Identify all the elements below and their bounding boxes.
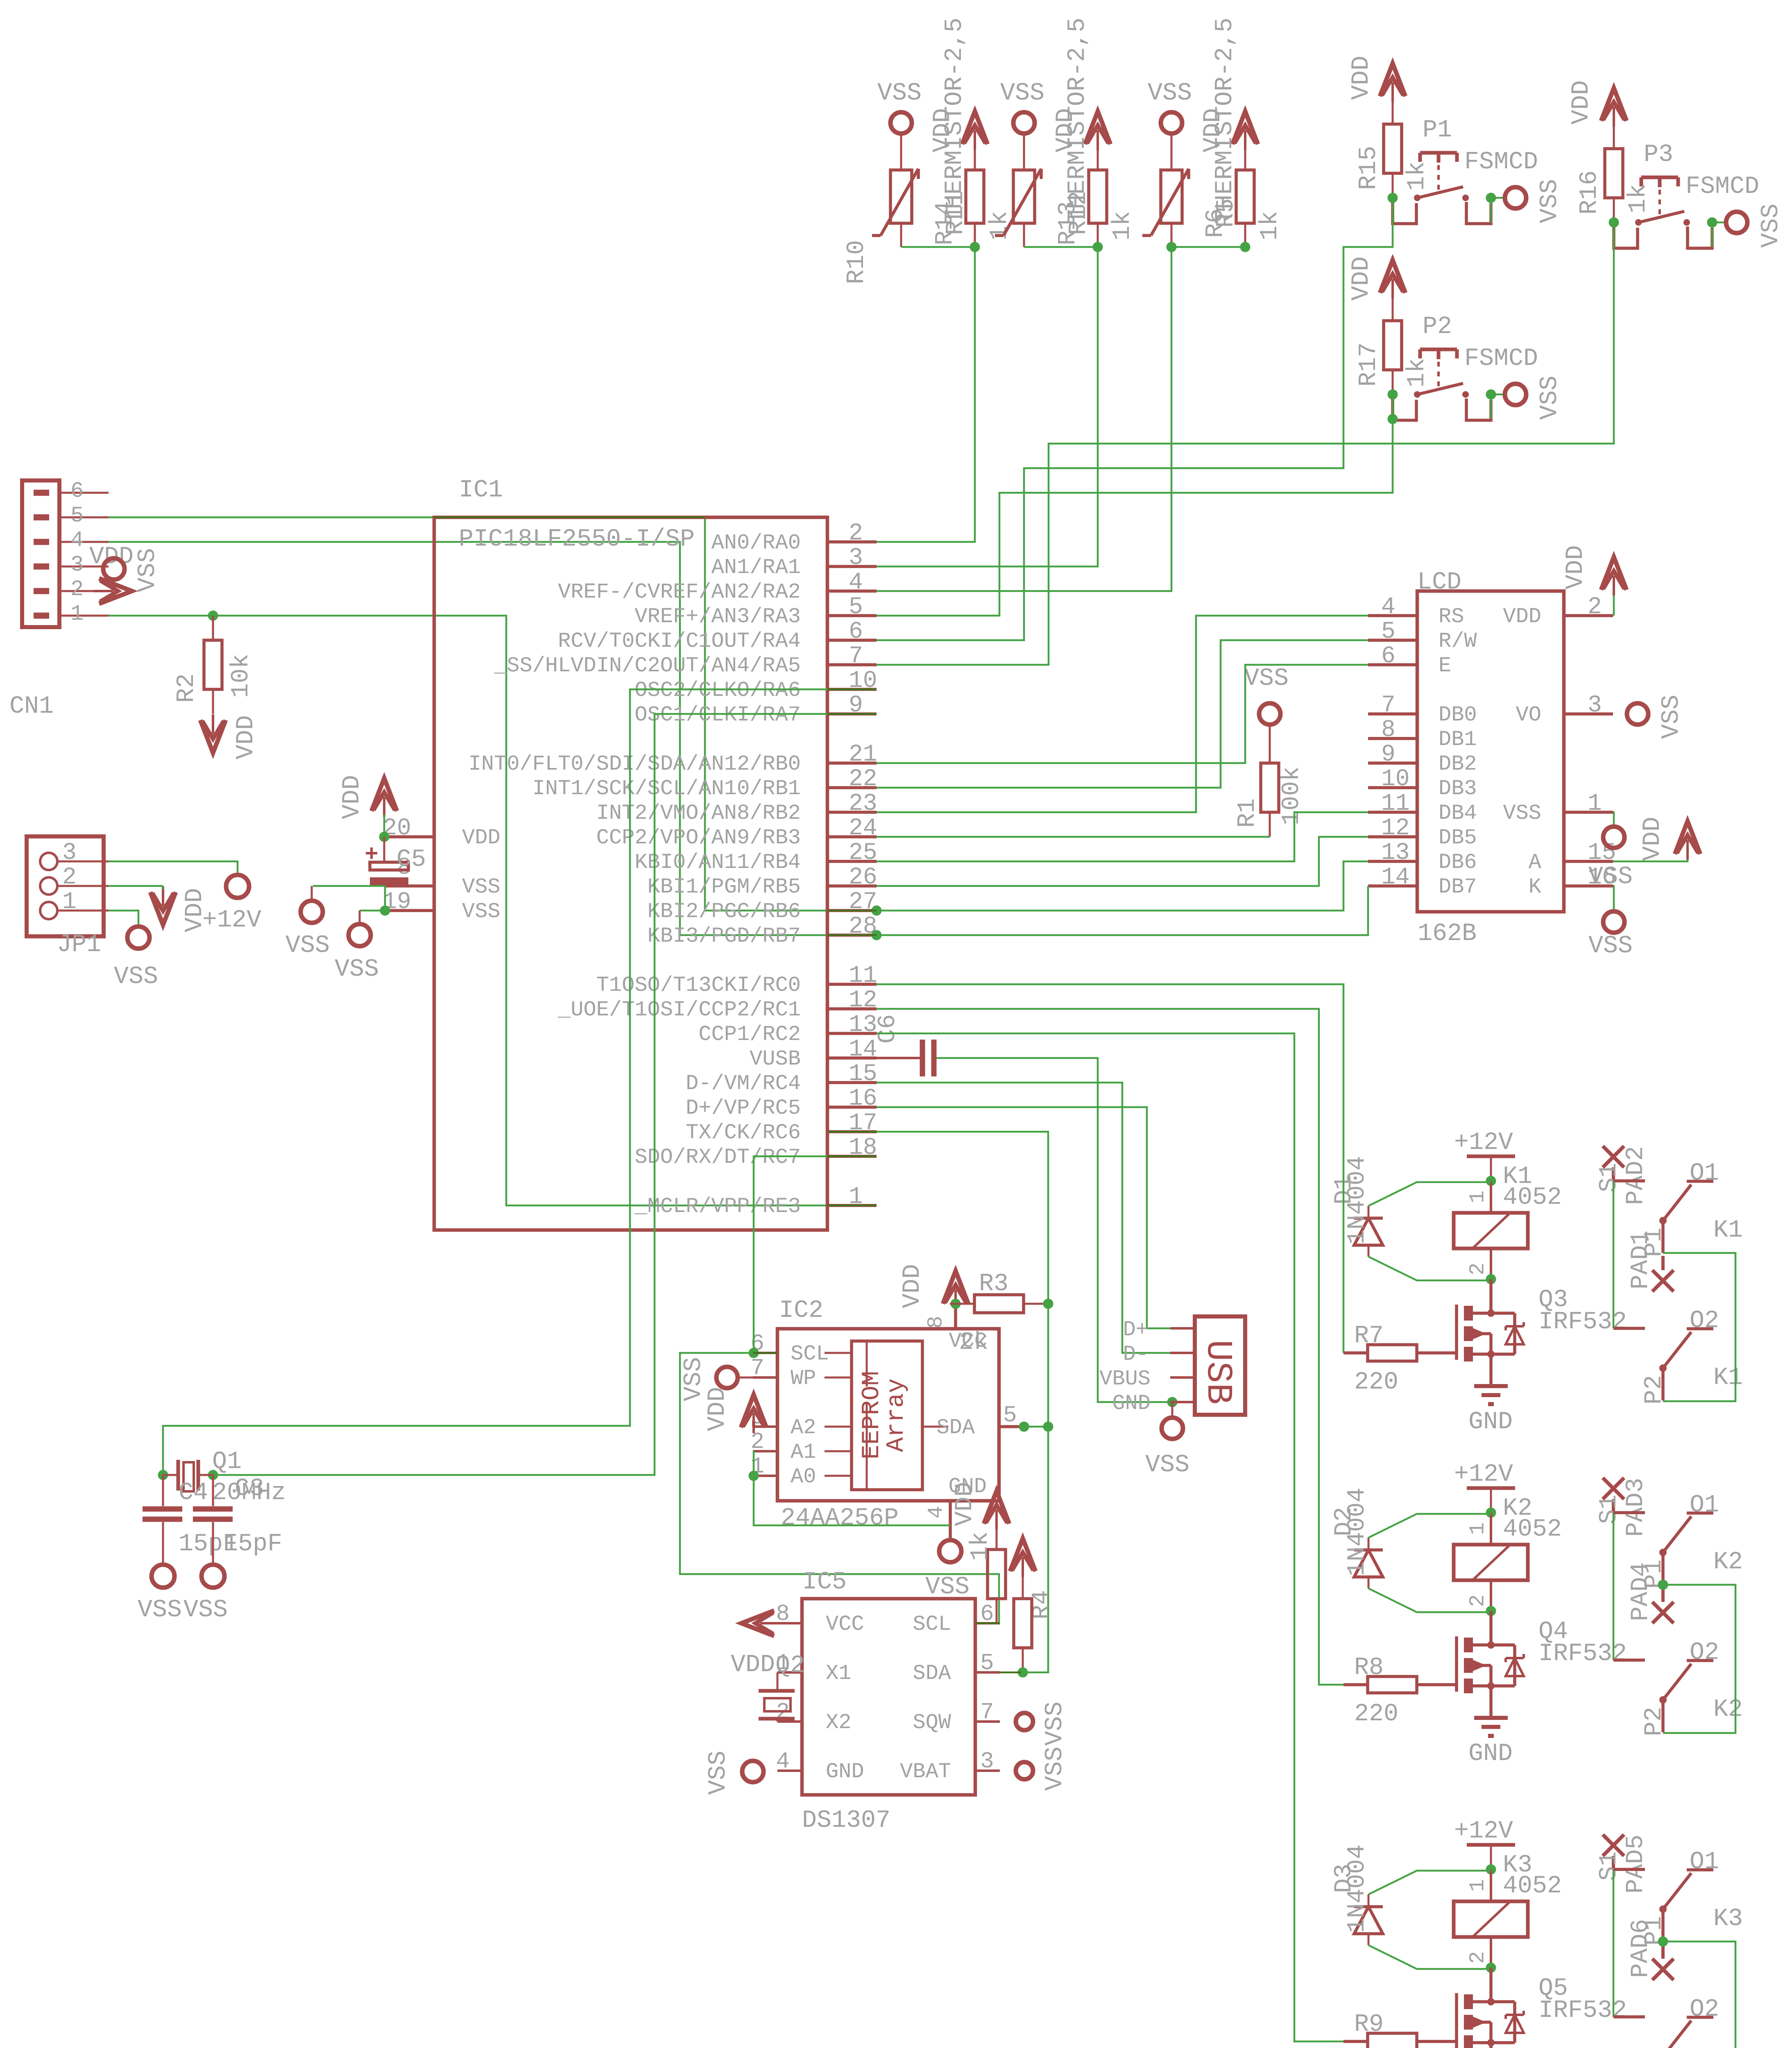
svg-text:PAD1: PAD1 xyxy=(1627,1230,1655,1289)
svg-text:K2: K2 xyxy=(1713,1696,1743,1724)
transistor Q3 IRF532 xyxy=(1457,1279,1627,1362)
junction node K2 pole1 xyxy=(1658,1580,1668,1590)
svg-text:220: 220 xyxy=(1354,1700,1398,1728)
junction node group2 xyxy=(1093,242,1103,252)
wire P1 net to IC1 pin6 xyxy=(877,198,1393,640)
svg-text:15: 15 xyxy=(1588,840,1616,866)
power VSS ring below IC2 GND xyxy=(925,1540,970,1601)
junction node Q5 drain xyxy=(1487,1998,1495,2005)
svg-text:3: 3 xyxy=(1588,692,1602,719)
IC1 pin 28 KBI3/PGD/RB7 xyxy=(648,913,877,948)
svg-text:_UOE/T1OSI/CCP2/RC1: _UOE/T1OSI/CCP2/RC1 xyxy=(557,998,801,1022)
IC5 pin 8 VCC xyxy=(776,1601,864,1636)
svg-text:1: 1 xyxy=(1466,1522,1490,1535)
svg-text:VSS: VSS xyxy=(1000,79,1044,107)
svg-text:VDD: VDD xyxy=(899,1264,927,1308)
IC1 pin 26 KBI1/PGM/RB5 xyxy=(648,864,877,899)
pad PAD1 xyxy=(1627,1230,1674,1291)
svg-text:26: 26 xyxy=(849,864,877,891)
svg-text:GND: GND xyxy=(1468,1740,1513,1768)
svg-text:P2: P2 xyxy=(1423,313,1452,341)
resistor R1 100k xyxy=(1234,725,1306,837)
wire IC1 pin25 to LCD DB4 xyxy=(877,812,1368,861)
svg-text:Array: Array xyxy=(883,1378,911,1452)
svg-text:S1: S1 xyxy=(1595,1851,1623,1881)
IC1 pin 27 KBI2/PGC/RB6 xyxy=(648,889,877,924)
IC1 pin 11 T1OSO/T13CKI/RC0 xyxy=(596,963,877,997)
svg-text:1: 1 xyxy=(1588,791,1602,817)
IC5 pin 1 X1 xyxy=(776,1650,851,1686)
svg-text:C5: C5 xyxy=(396,846,426,874)
svg-text:PAD2: PAD2 xyxy=(1622,1146,1650,1205)
junction node IC1 pin28 xyxy=(872,930,882,940)
svg-text:2: 2 xyxy=(1466,1951,1490,1964)
transistor Q5 IRF532 xyxy=(1457,1968,1627,2048)
resistor R8 220 xyxy=(1343,1654,1457,1728)
svg-text:_SS/HLVDIN/C2OUT/AN4/RA5: _SS/HLVDIN/C2OUT/AN4/RA5 xyxy=(494,654,801,678)
svg-text:GND: GND xyxy=(1112,1391,1151,1416)
svg-text:4: 4 xyxy=(776,1748,790,1774)
svg-text:DS1307: DS1307 xyxy=(802,1807,890,1835)
svg-text:220: 220 xyxy=(1354,1368,1398,1396)
svg-text:PAD5: PAD5 xyxy=(1622,1835,1650,1894)
svg-text:CN1: CN1 xyxy=(9,693,54,720)
wire K2 poles xyxy=(1663,1585,1735,1733)
svg-text:D+/VP/RC5: D+/VP/RC5 xyxy=(686,1096,801,1120)
svg-text:1k: 1k xyxy=(1109,211,1137,240)
svg-text:1: 1 xyxy=(1466,1879,1490,1892)
junction node SDA vertical xyxy=(1043,1422,1053,1432)
junction node Q3 drain xyxy=(1487,1309,1495,1317)
IC5 pin 4 GND xyxy=(776,1748,864,1784)
svg-text:VSS: VSS xyxy=(1536,376,1564,420)
svg-text:4: 4 xyxy=(924,1506,949,1518)
wire VSS to IC1 pin8 and C5 xyxy=(313,886,385,911)
junction node at R2 top xyxy=(208,611,218,621)
svg-text:VSS: VSS xyxy=(1503,801,1541,825)
svg-text:SCL: SCL xyxy=(913,1612,951,1636)
svg-text:11: 11 xyxy=(1381,791,1410,817)
svg-text:4: 4 xyxy=(1381,594,1396,621)
junction node Q5 source xyxy=(1487,2039,1495,2046)
junction node Q1 right xyxy=(208,1470,218,1480)
IC1 pin 17 TX/CK/RC6 xyxy=(686,1110,877,1145)
wire IC1 pin18 SCL net xyxy=(754,1156,877,1353)
IC IC1 PIC18LF2550-I/SP body xyxy=(434,476,827,1230)
IC5 pin 3 VBAT xyxy=(900,1748,1000,1784)
IC5 pin 5 SDA xyxy=(913,1650,1000,1686)
IC2 pin 2 A1 xyxy=(750,1429,852,1464)
svg-text:162B: 162B xyxy=(1418,920,1477,948)
LCD pin 16 K xyxy=(1529,864,1616,899)
thermistor R6 THERMISTOR-2,5 xyxy=(1142,169,1189,247)
wire thermistor group2 bottoms xyxy=(1024,246,1098,248)
svg-text:14: 14 xyxy=(849,1036,877,1063)
power VSS ring above thermistor R6 xyxy=(1148,79,1192,170)
LCD pin 13 DB6 xyxy=(1368,840,1477,874)
svg-text:SDO/RX/DT/RC7: SDO/RX/DT/RC7 xyxy=(634,1145,801,1169)
svg-text:SCL: SCL xyxy=(791,1342,829,1366)
svg-text:1k: 1k xyxy=(1256,211,1284,240)
svg-text:R3: R3 xyxy=(979,1270,1008,1298)
svg-text:8: 8 xyxy=(1381,717,1396,743)
resistor R4a 1k SCL pullup xyxy=(967,1525,1006,1623)
wire IC1 pin28 to LCD DB7 xyxy=(877,886,1368,935)
wire CN1 pin1 to R2 and MCLR xyxy=(109,616,877,1205)
diode D1 1N4004 xyxy=(1330,1156,1383,1257)
pad S1 PAD5 xyxy=(1595,1835,1650,1894)
svg-text:RS: RS xyxy=(1439,605,1464,629)
svg-text:GND: GND xyxy=(826,1760,864,1784)
svg-text:EEPROM: EEPROM xyxy=(858,1371,886,1459)
power VDD arrow at CN1 pin2 xyxy=(89,543,134,604)
svg-text:P3: P3 xyxy=(1644,141,1673,169)
power VSS ring at LCD pin16 xyxy=(1588,911,1633,960)
junction node K2 coil top xyxy=(1486,1508,1496,1518)
power VSS ring below pin19 xyxy=(335,911,379,983)
svg-text:2: 2 xyxy=(62,864,77,891)
svg-text:R11: R11 xyxy=(942,191,970,235)
svg-text:14: 14 xyxy=(1381,864,1410,891)
svg-text:7: 7 xyxy=(1381,692,1396,719)
power VDD arrow at JP1 pin2 xyxy=(150,886,209,932)
svg-text:23: 23 xyxy=(849,791,877,817)
ground GND below Q4 xyxy=(1468,1686,1513,1768)
pad S1 PAD2 xyxy=(1595,1146,1650,1205)
IC1 pin 25 KBI0/AN11/RB4 xyxy=(634,840,877,874)
junction node K3 pole1 xyxy=(1658,1937,1668,1947)
pad S1 PAD3 xyxy=(1595,1478,1650,1537)
svg-text:Q1: Q1 xyxy=(212,1448,242,1476)
svg-text:S1: S1 xyxy=(1595,1495,1623,1524)
wire IC1 pin23 to LCD RS xyxy=(877,616,1368,812)
capacitor C5 electrolytic xyxy=(366,837,426,886)
resistor R7 220 xyxy=(1343,1322,1457,1396)
svg-text:WP: WP xyxy=(791,1366,816,1391)
svg-text:O2: O2 xyxy=(1690,1639,1719,1667)
svg-text:VSS: VSS xyxy=(1041,1701,1069,1746)
svg-text:13: 13 xyxy=(849,1012,877,1038)
svg-text:3: 3 xyxy=(980,1748,994,1774)
svg-text:R7: R7 xyxy=(1354,1322,1384,1350)
svg-text:1N4004: 1N4004 xyxy=(1343,1156,1371,1244)
svg-text:FSMCD: FSMCD xyxy=(1686,173,1759,201)
svg-text:O2: O2 xyxy=(1690,1307,1719,1335)
wire SCL to IC5 xyxy=(680,1353,999,1623)
LCD pin 6 E xyxy=(1368,643,1451,678)
IC1 pin 10 OSC2/CLKO/RA6 xyxy=(634,668,877,702)
svg-text:LCD: LCD xyxy=(1417,569,1461,596)
svg-text:5: 5 xyxy=(70,503,84,528)
junction node USB GND xyxy=(1167,1397,1178,1407)
svg-text:7: 7 xyxy=(980,1699,994,1725)
diode D2 1N4004 xyxy=(1330,1488,1383,1588)
IC LCD 162B body xyxy=(1417,569,1564,948)
power VSS ring at P2 xyxy=(1505,376,1564,420)
svg-text:5: 5 xyxy=(980,1650,994,1676)
wire P2 to VSS ring xyxy=(1491,394,1505,419)
LCD pin 3 VO xyxy=(1516,692,1613,727)
wire SDA vertical to IC5 xyxy=(1021,1304,1048,1672)
svg-text:KBI2/PGC/RB6: KBI2/PGC/RB6 xyxy=(648,899,801,924)
power VSS ring below C5 left xyxy=(285,886,330,960)
svg-text:DB0: DB0 xyxy=(1439,703,1477,727)
wire IC1 pin16 to USB D+ xyxy=(877,1107,1170,1328)
svg-text:5: 5 xyxy=(849,594,863,621)
svg-text:VSS: VSS xyxy=(1244,665,1289,693)
IC2 pin 5 SDA xyxy=(922,1402,1021,1440)
svg-text:FSMCD: FSMCD xyxy=(1464,148,1538,176)
junction node R15 bottom xyxy=(1388,193,1398,203)
IC IC5 DS1307 body xyxy=(802,1568,975,1835)
resistor R2 10k xyxy=(173,616,255,714)
diode D3 1N4004 xyxy=(1330,1844,1383,1945)
LCD pin 15 A xyxy=(1529,840,1616,874)
wire IC1 pin13 to R9 xyxy=(877,1033,1343,2041)
wire C6 to USB GND xyxy=(936,1058,1172,1402)
wire IC1 pin24 to R1 xyxy=(877,836,1270,838)
svg-text:X2: X2 xyxy=(826,1710,851,1735)
junction node Q1 left xyxy=(158,1470,168,1480)
svg-text:O1: O1 xyxy=(1690,1848,1719,1876)
svg-text:PAD3: PAD3 xyxy=(1622,1478,1650,1537)
resistor R16 1k xyxy=(1576,124,1652,222)
relay contact K2 O2 xyxy=(1613,1639,1743,1736)
power VSS ring below C3 xyxy=(184,1565,228,1624)
svg-text:100k: 100k xyxy=(1278,766,1306,825)
power VDD arrow above resistor R11 xyxy=(929,108,988,170)
svg-text:R/W: R/W xyxy=(1439,629,1477,653)
junction node R4b bottom SDA xyxy=(1018,1667,1028,1678)
power +12V at K3 xyxy=(1454,1817,1515,1869)
pushbutton P1 FSMCD xyxy=(1393,116,1538,224)
junction node P3 right contact xyxy=(1707,217,1717,228)
svg-text:2: 2 xyxy=(1588,594,1602,621)
junction node IC1 pin19 xyxy=(380,906,390,916)
capacitor C4 15pF xyxy=(143,1475,238,1565)
IC IC2 24AA256P body xyxy=(777,1297,999,1532)
svg-text:VREF-/CVREF/AN2/RA2: VREF-/CVREF/AN2/RA2 xyxy=(558,580,801,604)
power VSS ring at IC5 GND xyxy=(705,1751,763,1795)
svg-text:IC1: IC1 xyxy=(459,476,503,504)
svg-text:DB2: DB2 xyxy=(1439,752,1477,776)
svg-text:VCC: VCC xyxy=(826,1612,864,1636)
svg-text:VBAT: VBAT xyxy=(900,1760,951,1784)
svg-text:D-/VM/RC4: D-/VM/RC4 xyxy=(686,1072,801,1096)
junction node IC2 SCL xyxy=(749,1348,759,1358)
svg-text:+12V: +12V xyxy=(1454,1461,1513,1488)
relay contact K3 O2 xyxy=(1613,1996,1743,2048)
svg-text:K1: K1 xyxy=(1713,1217,1743,1244)
power VDD arrow above resistor R5 xyxy=(1199,108,1258,170)
power VSS ring at P1 xyxy=(1505,179,1564,223)
pushbutton P2 FSMCD xyxy=(1393,313,1538,420)
svg-text:A: A xyxy=(1529,850,1542,874)
LCD pin 4 RS xyxy=(1368,594,1464,629)
svg-text:4052: 4052 xyxy=(1503,1516,1562,1543)
svg-text:VDD: VDD xyxy=(338,775,366,819)
svg-text:15pF: 15pF xyxy=(223,1530,282,1558)
junction node K1 coil bottom xyxy=(1486,1274,1496,1285)
thermistor R14 THERMISTOR-2,5 xyxy=(872,169,918,247)
svg-text:1k: 1k xyxy=(1403,161,1431,191)
pushbutton P3 FSMCD xyxy=(1614,141,1759,248)
svg-text:VSS: VSS xyxy=(138,1596,182,1624)
svg-text:R8: R8 xyxy=(1354,1654,1384,1682)
svg-text:VSS: VSS xyxy=(134,548,162,592)
svg-text:VBUS: VBUS xyxy=(1099,1367,1151,1391)
wire JP1 pin3 to +12V xyxy=(109,861,238,875)
crystal Q1 20MHz xyxy=(163,1448,286,1507)
wire thermistor group1 bottoms xyxy=(901,246,975,248)
svg-text:SQW: SQW xyxy=(913,1710,951,1735)
wire IC1 pin21 to LCD E xyxy=(877,665,1368,763)
svg-text:DB5: DB5 xyxy=(1439,826,1477,850)
wire IC1 pin27 to LCD DB6 xyxy=(877,861,1368,911)
LCD pin 12 DB5 xyxy=(1368,815,1477,850)
svg-text:OSC2/CLKO/RA6: OSC2/CLKO/RA6 xyxy=(634,678,801,702)
IC5 pin 7 SQW xyxy=(913,1699,1000,1735)
svg-text:5: 5 xyxy=(1381,618,1396,645)
svg-text:4052: 4052 xyxy=(1503,1872,1562,1900)
svg-text:O1: O1 xyxy=(1690,1491,1719,1519)
svg-text:R9: R9 xyxy=(1354,2011,1384,2039)
LCD pin 11 DB4 xyxy=(1368,791,1477,825)
IC1 pin 22 INT1/SCK/SCL/AN10/RB1 xyxy=(532,766,877,801)
power VDD arrow above resistor R12 xyxy=(1052,108,1110,170)
IC1 pin 7 _SS/HLVDIN/C2OUT/AN4/RA5 xyxy=(494,643,877,678)
svg-text:KBI0/AN11/RB4: KBI0/AN11/RB4 xyxy=(634,850,801,874)
svg-text:VSS: VSS xyxy=(1588,932,1633,960)
svg-text:VSS: VSS xyxy=(705,1751,732,1795)
svg-text:3: 3 xyxy=(62,840,77,866)
svg-text:OSC1/CLKI/RA7: OSC1/CLKI/RA7 xyxy=(634,703,801,727)
IC1 pin 19 VSS xyxy=(383,889,500,924)
svg-text:K: K xyxy=(1529,875,1542,899)
svg-text:VDD: VDD xyxy=(1348,256,1375,301)
power VDD arrow above R16 xyxy=(1568,80,1627,127)
wire group1 to IC1 pin2 xyxy=(877,247,975,542)
pad PAD4 xyxy=(1627,1562,1674,1623)
wire P1 to VSS ring xyxy=(1491,198,1505,222)
wire S1 to contacts K2 xyxy=(1613,1513,1615,1660)
wire P2 net to IC1 pin5 xyxy=(877,394,1393,616)
IC2 pin 1 A0 xyxy=(750,1453,852,1489)
wire D1 cathode to coil xyxy=(1368,1182,1491,1206)
junction node P1 right contact xyxy=(1486,193,1496,203)
svg-text:C4: C4 xyxy=(179,1479,208,1507)
power VDD arrow below R2 xyxy=(200,714,260,759)
power VDD arrow above R4b xyxy=(1010,1538,1056,1620)
svg-text:9: 9 xyxy=(1381,741,1396,768)
power VSS ring at JP1 pin1 xyxy=(114,927,158,991)
wire S1 to contacts K3 xyxy=(1613,1869,1615,2017)
svg-text:VSS: VSS xyxy=(1145,1451,1189,1479)
svg-text:A1: A1 xyxy=(791,1440,816,1464)
svg-text:T1OSO/T13CKI/RC0: T1OSO/T13CKI/RC0 xyxy=(596,973,801,997)
junction node R16 bottom xyxy=(1609,217,1619,228)
wire group3 to IC1 pin4 xyxy=(877,247,1171,591)
LCD pin 7 DB0 xyxy=(1368,692,1477,727)
resistor R12 1k xyxy=(1065,170,1137,247)
svg-text:D-: D- xyxy=(1123,1342,1149,1366)
svg-text:SDA: SDA xyxy=(936,1416,975,1440)
svg-text:7: 7 xyxy=(849,643,863,670)
power VDD arrow at IC2 A2 xyxy=(741,1395,766,1433)
relay contact K1 O2 xyxy=(1613,1307,1743,1405)
wire S1 to contacts K1 xyxy=(1613,1181,1615,1328)
svg-text:10: 10 xyxy=(1381,766,1410,793)
svg-text:DB7: DB7 xyxy=(1439,875,1477,899)
junction node IC1 pin27 xyxy=(872,906,882,916)
svg-text:DB3: DB3 xyxy=(1439,777,1477,801)
wire D2 cathode to coil xyxy=(1368,1514,1491,1538)
power VDD arrow at LCD pin15 xyxy=(1639,817,1700,861)
svg-text:R12: R12 xyxy=(1065,191,1093,235)
power VSS ring at IC5 SQW xyxy=(1016,1701,1069,1746)
svg-text:1: 1 xyxy=(70,602,84,627)
junction node Q4 source xyxy=(1487,1682,1495,1690)
svg-text:22: 22 xyxy=(849,766,877,793)
wire K1 poles xyxy=(1663,1253,1735,1401)
svg-text:K2: K2 xyxy=(1713,1548,1743,1576)
junction node group1 xyxy=(970,242,980,252)
IC1 pin 13 CCP1/RC2 xyxy=(698,1012,877,1047)
power VDD arrow at LCD pin2 xyxy=(1562,545,1627,596)
svg-text:21: 21 xyxy=(849,741,877,768)
resistor R11 1k xyxy=(942,170,1014,247)
svg-text:P2: P2 xyxy=(1640,1375,1668,1405)
svg-text:VO: VO xyxy=(1516,703,1541,727)
wire thermistor group3 bottoms xyxy=(1171,246,1245,248)
svg-text:25: 25 xyxy=(849,840,877,866)
svg-text:PIC18LF2550-I/SP: PIC18LF2550-I/SP xyxy=(459,526,695,553)
svg-text:4: 4 xyxy=(849,569,863,596)
svg-text:2: 2 xyxy=(1466,1262,1490,1275)
svg-text:12: 12 xyxy=(1381,815,1410,842)
svg-text:VDD: VDD xyxy=(704,1387,732,1431)
junction node group3 left xyxy=(1167,242,1177,252)
IC2 pin 8 VCC xyxy=(924,1304,987,1353)
resistor R3 2k xyxy=(950,1270,1048,1357)
svg-text:AN0/RA0: AN0/RA0 xyxy=(711,531,801,555)
svg-text:INT2/VMO/AN8/RB2: INT2/VMO/AN8/RB2 xyxy=(596,801,801,825)
svg-text:R17: R17 xyxy=(1355,342,1383,387)
svg-text:VSS: VSS xyxy=(114,963,158,991)
svg-text:VSS: VSS xyxy=(462,899,501,924)
svg-text:DB4: DB4 xyxy=(1439,801,1477,825)
IC1 pin 1 _MCLR/VPP/RE3 xyxy=(634,1184,877,1219)
svg-text:D+: D+ xyxy=(1123,1318,1149,1342)
wire IC1 pin26 to LCD DB5 xyxy=(877,837,1368,886)
relay contact K1 O1 xyxy=(1613,1160,1743,1257)
svg-text:12: 12 xyxy=(849,987,877,1014)
power VSS ring below C4 xyxy=(138,1565,182,1624)
IC1 pin 5 VREF+/AN3/RA3 xyxy=(634,594,877,629)
junction node Q3 source xyxy=(1487,1350,1495,1358)
svg-text:A2: A2 xyxy=(791,1416,816,1440)
resistor R15 1k xyxy=(1355,100,1431,198)
svg-text:DB6: DB6 xyxy=(1439,850,1477,874)
svg-text:K3: K3 xyxy=(1713,1905,1743,1933)
relay K1 4052 coil xyxy=(1454,1163,1562,1279)
IC1 pin 21 INT0/FLT0/SDI/SDA/AN12/RB0 xyxy=(469,741,877,776)
junction node P2 right contact xyxy=(1486,390,1496,400)
wire P3 net to IC1 pin7 xyxy=(877,222,1614,665)
power VSS ring above thermistor R13 xyxy=(1000,79,1044,170)
svg-text:VDD: VDD xyxy=(1639,817,1667,861)
power VSS ring at IC5 VBAT xyxy=(1016,1747,1069,1791)
